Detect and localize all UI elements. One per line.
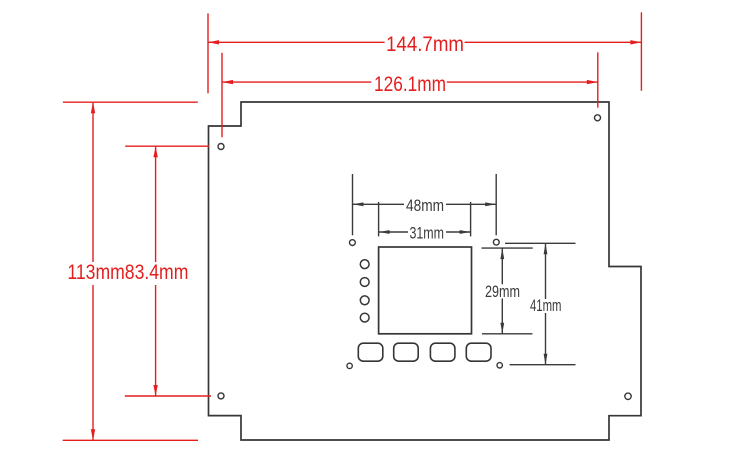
svg-text:31mm: 31mm: [410, 224, 445, 242]
dimension 48mm: [353, 174, 497, 235]
mounting hole bottom-left: [218, 393, 224, 399]
inner hole upper-left of LCD: [350, 240, 356, 246]
mounting hole top-left: [218, 144, 224, 150]
LED hole 4 left of LCD: [360, 313, 369, 322]
dimension 144.7mm: [208, 12, 641, 93]
dimension 83.4mm (left, hole to hole): [125, 146, 211, 396]
LED hole 1 left of LCD: [360, 260, 369, 269]
button cutout 1: [358, 343, 383, 361]
button cutout 4: [466, 343, 491, 361]
dimension 29mm: [482, 248, 533, 334]
svg-text:41mm: 41mm: [530, 297, 562, 315]
svg-text:29mm: 29mm: [485, 283, 520, 301]
LCD cutout rectangle: [379, 247, 472, 334]
mounting hole bottom-right: [625, 393, 631, 399]
svg-text:144.7mm: 144.7mm: [386, 32, 464, 56]
inner hole lower-right of LCD: [497, 363, 502, 368]
button cutout 3: [430, 343, 455, 361]
dimension 126.1mm: [222, 52, 598, 137]
LED hole 2 left of LCD: [360, 278, 369, 287]
inner hole upper-right of LCD: [493, 239, 499, 245]
svg-text:48mm: 48mm: [406, 197, 444, 215]
svg-text:126.1mm: 126.1mm: [374, 72, 446, 96]
inner hole lower-left of LCD: [347, 363, 352, 368]
LED hole 3 left of LCD: [360, 296, 369, 305]
svg-text:113mm83.4mm: 113mm83.4mm: [67, 260, 188, 284]
dimension 113mm (left, full height): [63, 102, 198, 440]
mounting hole top-right: [595, 115, 601, 121]
dimension 31mm: [379, 202, 471, 237]
dimension 41mm: [505, 243, 576, 364]
panel outline: [209, 102, 642, 440]
button cutout 2: [394, 343, 419, 361]
